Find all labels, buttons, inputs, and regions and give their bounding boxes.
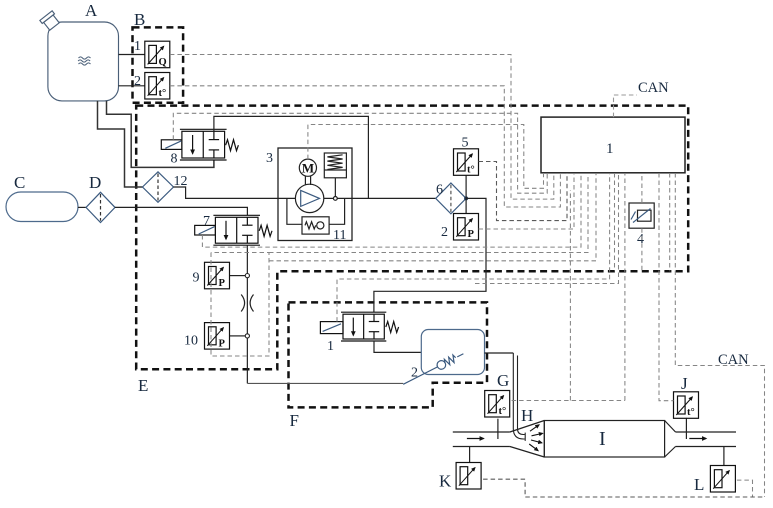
svg-text:2: 2	[134, 74, 141, 89]
sensor 9 pressure	[230, 275, 246, 277]
sensor 10 pressure	[230, 335, 246, 337]
wire G second riser	[569, 190, 571, 401]
wire valve 1 to injector	[374, 341, 421, 352]
filter 6	[436, 183, 466, 214]
svg-text:t°: t°	[499, 406, 507, 417]
box E supply module boundary	[136, 106, 688, 370]
filter 12	[143, 172, 174, 203]
node sensor 9 junction	[245, 274, 249, 278]
svg-text:F: F	[290, 411, 299, 430]
ECU 1	[541, 117, 685, 173]
wire component 4 to ECU	[641, 173, 643, 203]
wire valve 8 tap to pressure line	[214, 116, 369, 198]
ECU spare pin 614	[614, 173, 616, 271]
wire C to filter D	[78, 206, 86, 208]
exhaust inlet pipe	[453, 432, 510, 447]
svg-text:8: 8	[171, 152, 178, 167]
relief damper	[324, 153, 346, 200]
valve 1 in F	[320, 312, 398, 341]
wire motor to ECU	[308, 125, 544, 189]
signal wires	[170, 55, 765, 498]
svg-text:L: L	[694, 475, 704, 494]
svg-text:Q: Q	[159, 57, 167, 68]
svg-text:H: H	[521, 406, 533, 425]
svg-text:G: G	[497, 371, 509, 390]
reservoir C	[6, 192, 78, 222]
svg-text:2: 2	[441, 225, 448, 240]
valve 8	[161, 129, 238, 160]
svg-text:1: 1	[327, 339, 334, 354]
wire suction filter 12 to pump	[174, 187, 296, 198]
svg-text:10: 10	[184, 334, 198, 349]
svg-text:CAN: CAN	[638, 80, 669, 96]
node at filter 6 outlet	[464, 196, 468, 200]
node sensor 10 junction	[245, 334, 249, 338]
pressure line pump to filter 6	[324, 197, 436, 199]
svg-text:J: J	[681, 374, 688, 393]
catalyst I	[544, 421, 675, 458]
svg-text:9: 9	[193, 271, 200, 286]
orifice restrictor	[241, 295, 253, 312]
sensor J temperature	[685, 418, 687, 439]
svg-text:M: M	[302, 161, 314, 176]
pump module box 3	[278, 148, 352, 241]
outlet flow arrow	[689, 438, 706, 440]
svg-text:E: E	[138, 376, 148, 395]
svg-text:7: 7	[203, 214, 210, 229]
svg-text:11: 11	[333, 228, 346, 243]
svg-text:t°: t°	[467, 164, 475, 175]
CAN bottom wire to ECU	[675, 173, 764, 497]
svg-text:P: P	[219, 278, 226, 289]
svg-text:1: 1	[134, 39, 141, 54]
wire sensor L	[737, 480, 753, 497]
component 4 sensor	[629, 203, 654, 228]
pump	[295, 184, 323, 212]
svg-text:6: 6	[436, 183, 443, 198]
ECU spare run 283	[475, 173, 619, 284]
sensor 2 pressure	[465, 198, 467, 213]
svg-text:P: P	[219, 338, 226, 349]
wire sensor K	[483, 479, 764, 497]
sensor 1 level Q	[145, 41, 170, 67]
svg-text:I: I	[599, 428, 606, 450]
wire D to valve 7	[115, 207, 247, 215]
injector 2	[401, 330, 484, 389]
wire tank to sensor 1	[119, 54, 145, 56]
air line valve 7 down	[246, 245, 248, 383]
air line to injector	[247, 382, 403, 384]
wire below component 4	[641, 228, 643, 271]
box B	[133, 27, 184, 102]
svg-text:A: A	[85, 1, 98, 20]
spray arrows	[529, 425, 542, 451]
wire valve 8 to ECU	[173, 113, 547, 193]
sensor 5 temperature	[465, 175, 467, 198]
wire sensor 2P to ECU	[479, 173, 575, 229]
svg-text:5: 5	[462, 136, 469, 151]
sensor L	[723, 447, 725, 466]
inlet flow arrow	[467, 438, 484, 440]
wire return tank to valve 8	[107, 101, 214, 167]
wire valve F1 to ECU	[337, 173, 610, 322]
check valve 11 bypass	[287, 198, 345, 234]
CAN top wire	[614, 95, 638, 117]
wire sensor J to ECU	[659, 173, 674, 401]
svg-text:B: B	[134, 10, 145, 29]
wire sensor 1 to ECU	[170, 55, 554, 200]
svg-text:D: D	[89, 173, 101, 192]
valve 7	[195, 215, 272, 245]
tank A	[40, 11, 119, 101]
wire sensor 5 to ECU	[479, 162, 568, 221]
svg-text:2: 2	[411, 366, 418, 381]
wire sensor G to ECU	[512, 173, 625, 401]
svg-text:C: C	[14, 173, 25, 192]
dosing line to exhaust H	[485, 352, 514, 354]
wire sensor 2 to ECU	[170, 86, 561, 207]
sensor G temperature	[497, 419, 499, 439]
svg-text:P: P	[468, 229, 475, 240]
svg-text:K: K	[439, 472, 452, 491]
sensor K	[469, 447, 471, 463]
svg-text:1: 1	[606, 141, 614, 157]
svg-text:t°: t°	[687, 407, 695, 418]
wire valve 7 to ECU	[202, 173, 581, 247]
filter D	[86, 192, 115, 222]
wire sensor 9 loop	[211, 253, 269, 357]
pressure line to injector valve	[374, 198, 486, 312]
mixer cone	[510, 421, 544, 458]
wire sensor 9 to ECU	[269, 173, 588, 253]
motor M	[299, 159, 316, 185]
box F injector module	[289, 302, 488, 407]
wire sensor 10 to ECU	[269, 173, 596, 261]
wire tank to sensor 2	[119, 85, 145, 87]
sensor 2 temperature	[145, 73, 170, 100]
svg-text:3: 3	[266, 151, 273, 166]
wire suction tank to filter 12	[98, 101, 143, 187]
exhaust outlet pipe	[676, 432, 737, 447]
svg-text:4: 4	[637, 232, 644, 247]
ECU spare pin 670	[669, 173, 671, 271]
svg-text:t°: t°	[159, 88, 167, 99]
